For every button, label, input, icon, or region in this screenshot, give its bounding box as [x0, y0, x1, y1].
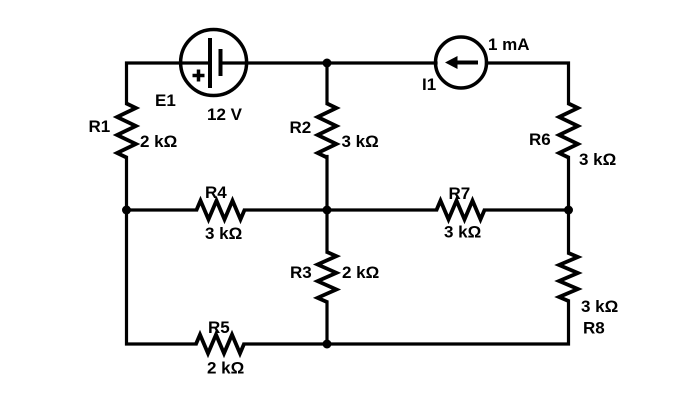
battery short plate (negative) — [219, 49, 223, 76]
node bottom middle — [323, 340, 332, 349]
voltage source E1 circle — [181, 30, 247, 96]
wire R3 to bottom middle node — [325, 302, 328, 344]
svg-text:3 kΩ: 3 kΩ — [205, 224, 242, 243]
svg-text:3 kΩ: 3 kΩ — [579, 150, 616, 169]
wire middle left node to R4 — [127, 208, 197, 211]
node top middle — [323, 59, 332, 68]
wire left vertical below R1 through bottom-left corner to R5 — [127, 158, 197, 345]
wire I1 right edge to top-right corner down to R6 — [487, 63, 569, 104]
current source I1 circle — [436, 37, 487, 88]
svg-text:12 V: 12 V — [207, 105, 243, 124]
resistor R2 — [318, 104, 337, 158]
resistor R5 — [196, 335, 244, 354]
svg-text:R3: R3 — [290, 263, 312, 282]
wire R8 to bottom-right corner to R5 right end — [244, 301, 569, 344]
svg-text:3 kΩ: 3 kΩ — [444, 223, 481, 242]
resistor R4 — [197, 201, 245, 220]
resistor R6 — [559, 104, 578, 158]
wire R2 to R3 through center node — [325, 157, 328, 253]
svg-text:R8: R8 — [583, 319, 605, 338]
svg-text:3 kΩ: 3 kΩ — [342, 132, 379, 151]
current source I1 arrow — [445, 56, 478, 69]
resistor R3 — [318, 252, 337, 302]
svg-text:1 mA: 1 mA — [488, 35, 530, 54]
svg-text:R7: R7 — [449, 184, 471, 203]
svg-text:R5: R5 — [208, 318, 230, 337]
wire top-left corner to battery plate — [127, 63, 210, 104]
svg-text:2 kΩ: 2 kΩ — [140, 132, 177, 151]
wire top middle node down to R2 — [325, 63, 328, 104]
svg-text:2 kΩ: 2 kΩ — [207, 359, 244, 378]
svg-text:R4: R4 — [205, 183, 227, 202]
resistor R1 — [117, 104, 136, 158]
resistor R7 — [437, 201, 485, 220]
svg-text:E1: E1 — [155, 91, 176, 110]
svg-text:R2: R2 — [290, 118, 312, 137]
wire R7 to right middle node — [485, 208, 569, 211]
node left middle — [122, 206, 131, 215]
node center — [323, 206, 332, 215]
node right middle — [564, 206, 573, 215]
wire R4 to R7 through center node — [245, 208, 437, 211]
battery long plate (positive) — [208, 38, 212, 88]
svg-text:I1: I1 — [422, 75, 436, 94]
resistor R8 — [559, 253, 578, 301]
battery plus sign — [193, 70, 205, 82]
svg-text:3 kΩ: 3 kΩ — [581, 297, 618, 316]
svg-text:2 kΩ: 2 kΩ — [342, 263, 379, 282]
svg-text:R6: R6 — [529, 130, 551, 149]
wire battery right plate to I1 left edge — [221, 61, 436, 64]
wire R6 to R8 through right middle node — [567, 158, 570, 254]
svg-text:R1: R1 — [89, 117, 111, 136]
